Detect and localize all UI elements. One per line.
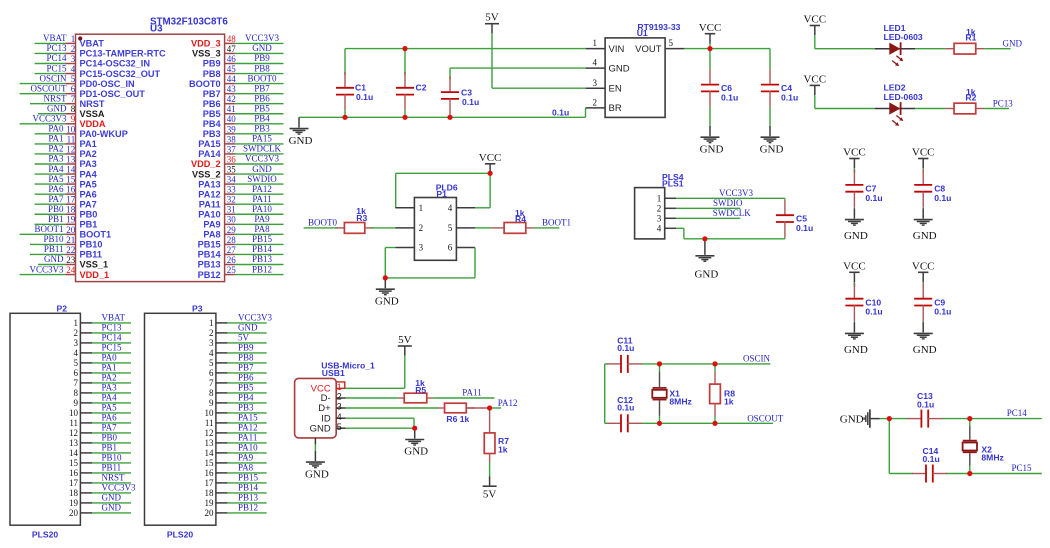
svg-text:PB9: PB9 bbox=[203, 59, 221, 69]
svg-text:PB6: PB6 bbox=[238, 373, 254, 383]
svg-text:38: 38 bbox=[227, 134, 237, 144]
svg-text:27: 27 bbox=[227, 245, 237, 255]
pin 13 (PA3) bbox=[65, 154, 97, 169]
svg-text:0.1u: 0.1u bbox=[917, 399, 934, 409]
svg-text:4: 4 bbox=[593, 58, 598, 68]
svg-text:GND: GND bbox=[252, 43, 272, 53]
svg-text:PLS1: PLS1 bbox=[662, 179, 684, 189]
svg-text:BOOT0: BOOT0 bbox=[308, 217, 337, 227]
wire bbox=[314, 438, 316, 451]
resistor R5 bbox=[398, 378, 432, 403]
svg-text:PD1-OSC_OUT: PD1-OSC_OUT bbox=[80, 89, 146, 99]
power VCC bbox=[843, 260, 866, 286]
svg-text:VCC: VCC bbox=[843, 147, 866, 159]
wire bbox=[889, 473, 1042, 475]
P3 pin 13 bbox=[205, 438, 228, 448]
pin 36 (VDD_2) bbox=[191, 154, 236, 169]
svg-text:PA9: PA9 bbox=[254, 214, 270, 224]
svg-text:42: 42 bbox=[227, 94, 236, 104]
svg-text:PB11: PB11 bbox=[80, 250, 102, 260]
svg-text:U3: U3 bbox=[150, 24, 163, 35]
pin 8 (VSSA) bbox=[65, 104, 105, 119]
wire bbox=[385, 248, 475, 278]
P2 pin 14 bbox=[69, 448, 92, 458]
node PB9 bbox=[235, 53, 284, 63]
P2 pin 10 bbox=[69, 408, 92, 418]
svg-text:0.1u: 0.1u bbox=[934, 307, 951, 317]
power VCC bbox=[843, 147, 866, 173]
svg-text:PB13: PB13 bbox=[238, 493, 259, 503]
wire bbox=[491, 33, 493, 88]
pin 25 (PB12) bbox=[198, 265, 237, 280]
power VCC bbox=[912, 260, 935, 286]
node PB14 bbox=[227, 483, 266, 493]
capacitor C13 bbox=[907, 391, 942, 427]
svg-text:19: 19 bbox=[66, 215, 76, 225]
wire bbox=[489, 462, 491, 476]
svg-text:12: 12 bbox=[205, 428, 214, 438]
svg-text:VCC: VCC bbox=[912, 260, 935, 272]
P2 pin 9 bbox=[74, 398, 93, 408]
ground bbox=[404, 428, 428, 458]
P2 pin 6 bbox=[74, 368, 93, 378]
USB1 pin 2 D- bbox=[336, 392, 346, 402]
node PB9 bbox=[227, 343, 266, 353]
node PB14 bbox=[235, 244, 284, 254]
svg-text:4: 4 bbox=[448, 203, 453, 213]
svg-text:11: 11 bbox=[205, 418, 214, 428]
node GND bbox=[227, 323, 266, 333]
node PB11 bbox=[92, 463, 131, 473]
P2 pin 18 bbox=[69, 488, 92, 498]
junction bbox=[712, 361, 717, 366]
svg-text:PB14: PB14 bbox=[252, 244, 273, 254]
svg-text:30: 30 bbox=[227, 215, 237, 225]
svg-text:VCC3V3: VCC3V3 bbox=[102, 483, 137, 493]
P1 pin 3 bbox=[396, 243, 424, 253]
svg-text:PB0: PB0 bbox=[80, 209, 98, 219]
node PB8 bbox=[227, 353, 266, 363]
svg-text:47: 47 bbox=[227, 44, 237, 54]
P2 pin 20 bbox=[69, 508, 92, 518]
ground bbox=[700, 126, 724, 155]
node PA1 bbox=[35, 134, 66, 144]
svg-text:PA14: PA14 bbox=[198, 149, 221, 159]
svg-text:PA7: PA7 bbox=[48, 194, 64, 204]
wire bbox=[492, 87, 586, 89]
svg-text:OSCOUT: OSCOUT bbox=[30, 83, 67, 93]
svg-text:PB12: PB12 bbox=[252, 264, 272, 274]
capacitor C5 bbox=[776, 198, 813, 239]
svg-text:PB7: PB7 bbox=[203, 89, 221, 99]
LED LED2 bbox=[875, 83, 923, 126]
svg-text:11: 11 bbox=[67, 134, 76, 144]
wire bbox=[345, 48, 586, 50]
svg-text:16: 16 bbox=[69, 468, 79, 478]
svg-text:VCC3V3: VCC3V3 bbox=[245, 154, 280, 164]
pin 9 (VDDA) bbox=[65, 114, 106, 129]
node PC13 bbox=[993, 98, 1014, 108]
svg-text:BR: BR bbox=[609, 103, 622, 114]
capacitor C8 bbox=[914, 169, 951, 208]
ground bbox=[305, 451, 329, 481]
node VCC3V3 bbox=[20, 264, 66, 274]
svg-text:33: 33 bbox=[227, 185, 237, 195]
node PA12 bbox=[490, 398, 518, 408]
wire bbox=[346, 427, 415, 429]
node PA8 bbox=[235, 224, 284, 234]
node PA6 bbox=[35, 184, 66, 194]
ground bbox=[375, 278, 399, 308]
node PA3 bbox=[35, 154, 66, 164]
wire bbox=[769, 49, 771, 60]
pin 47 (VSS_3) bbox=[192, 44, 236, 59]
pin 24 (VDD_1) bbox=[65, 265, 109, 280]
svg-text:PB12: PB12 bbox=[198, 270, 221, 280]
svg-text:5V: 5V bbox=[483, 489, 497, 501]
svg-text:2: 2 bbox=[593, 98, 598, 108]
node PC15 bbox=[35, 63, 67, 73]
USB1 pin 3 D+ bbox=[336, 402, 346, 412]
svg-text:8: 8 bbox=[71, 104, 76, 114]
svg-text:PC15: PC15 bbox=[102, 343, 123, 353]
U1 pin 1 VIN bbox=[586, 38, 605, 48]
svg-text:PA15: PA15 bbox=[198, 139, 220, 149]
svg-text:GND: GND bbox=[47, 103, 67, 113]
node VBAT bbox=[35, 33, 67, 43]
svg-text:PB1: PB1 bbox=[48, 214, 64, 224]
P2 pin 15 bbox=[69, 458, 92, 468]
svg-text:11: 11 bbox=[69, 418, 78, 428]
svg-text:PC14: PC14 bbox=[102, 333, 123, 343]
pin 14 (PA4) bbox=[65, 164, 97, 179]
svg-text:NRST: NRST bbox=[80, 99, 105, 109]
node PA8 bbox=[227, 463, 266, 473]
P3 pin 6 bbox=[209, 368, 227, 378]
ground bbox=[913, 322, 937, 356]
svg-text:PC15: PC15 bbox=[1012, 463, 1033, 473]
P3 pin 7 bbox=[209, 378, 227, 388]
svg-text:PA15: PA15 bbox=[238, 413, 258, 423]
svg-text:10: 10 bbox=[205, 408, 215, 418]
svg-text:VCC3V3: VCC3V3 bbox=[238, 313, 273, 323]
P2 pin 2 bbox=[74, 328, 93, 338]
node SWDCLK bbox=[676, 208, 751, 218]
capacitor C6 bbox=[701, 49, 738, 126]
svg-text:15: 15 bbox=[205, 458, 215, 468]
svg-text:35: 35 bbox=[227, 164, 237, 174]
svg-text:0.1u: 0.1u bbox=[923, 454, 940, 464]
ground bbox=[840, 409, 880, 427]
pin 48 (VDD_3) bbox=[191, 34, 236, 49]
USB1 pin 5 GND bbox=[336, 422, 346, 432]
svg-text:PB10: PB10 bbox=[102, 453, 123, 463]
wire bbox=[346, 407, 438, 409]
svg-text:13: 13 bbox=[205, 438, 215, 448]
P3 pin 19 bbox=[205, 498, 228, 508]
node NRST bbox=[92, 473, 131, 483]
P2 pin 4 bbox=[74, 348, 93, 358]
wire bbox=[345, 387, 405, 389]
junction bbox=[707, 46, 712, 51]
node GND bbox=[1003, 39, 1023, 49]
svg-text:PA8: PA8 bbox=[254, 224, 270, 234]
P3 pin 8 bbox=[209, 388, 227, 398]
svg-text:PC14-OSC32_IN: PC14-OSC32_IN bbox=[80, 59, 151, 69]
svg-text:PA11: PA11 bbox=[238, 433, 257, 443]
P3 pin 11 bbox=[205, 418, 228, 428]
svg-text:VBAT: VBAT bbox=[102, 313, 126, 323]
svg-text:PC13: PC13 bbox=[102, 323, 123, 333]
svg-text:13: 13 bbox=[69, 438, 79, 448]
svg-text:43: 43 bbox=[227, 84, 237, 94]
svg-text:GND: GND bbox=[375, 295, 399, 307]
svg-text:6: 6 bbox=[74, 368, 79, 378]
svg-text:18: 18 bbox=[205, 488, 215, 498]
svg-text:7: 7 bbox=[209, 378, 214, 388]
P1 pin 2 bbox=[396, 223, 424, 233]
svg-text:PA5: PA5 bbox=[48, 174, 64, 184]
U1 pin 4 GND bbox=[586, 58, 605, 68]
svg-text:4: 4 bbox=[657, 224, 662, 234]
node OSCIN bbox=[20, 73, 67, 83]
pin 38 (PA15) bbox=[198, 134, 236, 149]
junction bbox=[383, 275, 388, 280]
pin 4 (PC15-OSC32_OUT) bbox=[65, 64, 160, 79]
svg-text:PB4: PB4 bbox=[203, 119, 222, 129]
P3 pin 17 bbox=[205, 478, 228, 488]
svg-text:PA6: PA6 bbox=[102, 413, 118, 423]
svg-text:5V: 5V bbox=[485, 12, 499, 24]
svg-text:6: 6 bbox=[448, 243, 453, 253]
pin 2 (PC13-TAMPER-RTC) bbox=[65, 44, 166, 59]
pin 15 (PA5) bbox=[65, 175, 97, 190]
svg-text:LED-0603: LED-0603 bbox=[884, 92, 923, 102]
svg-text:44: 44 bbox=[227, 74, 237, 84]
node PB3 bbox=[235, 124, 284, 134]
svg-text:PA6: PA6 bbox=[80, 189, 97, 199]
svg-text:BOOT0: BOOT0 bbox=[189, 79, 221, 89]
wire bbox=[404, 49, 406, 75]
node PA9 bbox=[235, 214, 284, 224]
svg-text:VDDA: VDDA bbox=[80, 119, 106, 129]
node OSCOUT bbox=[747, 413, 784, 423]
pin 30 (PA9) bbox=[203, 215, 236, 230]
svg-text:R5: R5 bbox=[415, 385, 426, 395]
svg-text:0.1u: 0.1u bbox=[356, 92, 373, 102]
svg-text:PB11: PB11 bbox=[44, 244, 64, 254]
svg-text:GND: GND bbox=[305, 468, 329, 480]
junction bbox=[402, 115, 407, 120]
svg-text:2: 2 bbox=[71, 44, 76, 54]
resistor R3 bbox=[336, 206, 374, 233]
power VCC bbox=[479, 152, 502, 174]
node VCC3V3 bbox=[235, 154, 284, 164]
pin 3 (PC14-OSC32_IN) bbox=[65, 54, 150, 69]
wire bbox=[450, 67, 586, 69]
svg-text:3: 3 bbox=[71, 54, 76, 64]
P3 pin 14 bbox=[205, 448, 228, 458]
svg-text:C2: C2 bbox=[416, 83, 427, 93]
power 5V bbox=[483, 477, 497, 501]
svg-text:13: 13 bbox=[66, 154, 76, 164]
svg-text:14: 14 bbox=[69, 448, 79, 458]
header P1 PLD6 body bbox=[414, 182, 457, 260]
power 5V bbox=[398, 334, 412, 356]
node PC14 bbox=[92, 333, 131, 343]
svg-text:U1: U1 bbox=[637, 28, 648, 38]
node PA4 bbox=[92, 393, 131, 403]
svg-text:20: 20 bbox=[205, 508, 215, 518]
svg-text:3: 3 bbox=[419, 243, 424, 253]
svg-text:0.1u: 0.1u bbox=[781, 93, 798, 103]
svg-text:PB6: PB6 bbox=[203, 99, 221, 109]
wire bbox=[915, 48, 945, 50]
node PB1 bbox=[92, 443, 131, 453]
svg-text:6: 6 bbox=[71, 84, 76, 94]
node PC15 bbox=[1012, 463, 1033, 473]
pin 22 (PB11) bbox=[65, 245, 102, 260]
node PB0 bbox=[92, 433, 131, 443]
P1 pin 1 bbox=[396, 203, 424, 213]
svg-text:4: 4 bbox=[337, 412, 342, 422]
svg-text:PB13: PB13 bbox=[198, 260, 221, 270]
PLS1 pin 2 bbox=[657, 204, 677, 214]
svg-text:PB15: PB15 bbox=[252, 234, 273, 244]
P2 pin 3 bbox=[74, 338, 93, 348]
svg-text:0.1u: 0.1u bbox=[796, 223, 813, 233]
node PA9 bbox=[227, 453, 266, 463]
pin 23 (VSS_1) bbox=[65, 255, 108, 270]
svg-text:PC15-OSC32_OUT: PC15-OSC32_OUT bbox=[80, 69, 161, 79]
svg-text:0.1u: 0.1u bbox=[462, 97, 479, 107]
P2 pin 13 bbox=[69, 438, 92, 448]
resistor R4 bbox=[491, 208, 534, 233]
node BOOT0 bbox=[304, 217, 338, 228]
wire bbox=[604, 364, 606, 423]
pin 31 (PA10) bbox=[198, 205, 236, 220]
svg-text:5V: 5V bbox=[398, 334, 412, 346]
svg-text:GND: GND bbox=[102, 493, 122, 503]
junction bbox=[447, 115, 452, 120]
node PA11 bbox=[227, 433, 266, 443]
svg-text:SWDCLK: SWDCLK bbox=[713, 208, 752, 218]
P2 pin 8 bbox=[74, 388, 93, 398]
pin 41 (PB5) bbox=[203, 104, 236, 119]
svg-text:3: 3 bbox=[209, 338, 214, 348]
svg-text:37: 37 bbox=[227, 144, 237, 154]
node PC14 bbox=[35, 53, 67, 63]
pin 6 (PD1-OSC_OUT) bbox=[65, 84, 145, 99]
wire bbox=[396, 173, 490, 208]
node PB0 bbox=[35, 204, 66, 214]
junction bbox=[967, 471, 972, 476]
svg-text:R1: R1 bbox=[965, 32, 976, 42]
node VCC3V3 bbox=[227, 313, 272, 323]
P1 pin 5 bbox=[448, 223, 475, 233]
P3 pin 20 bbox=[205, 508, 228, 518]
svg-text:18: 18 bbox=[69, 488, 79, 498]
svg-text:22: 22 bbox=[66, 245, 75, 255]
svg-text:2: 2 bbox=[74, 328, 79, 338]
crystal X1 bbox=[652, 364, 692, 423]
U1 pin 3 EN bbox=[586, 78, 605, 88]
svg-text:18: 18 bbox=[66, 205, 76, 215]
node PB10 bbox=[30, 234, 65, 244]
PLS1 pin 1 bbox=[657, 194, 677, 204]
svg-text:SWDCLK: SWDCLK bbox=[243, 144, 282, 154]
svg-text:PA13: PA13 bbox=[198, 179, 220, 189]
svg-text:GND: GND bbox=[289, 135, 313, 147]
node PB5 bbox=[227, 383, 266, 393]
svg-text:PA6: PA6 bbox=[48, 184, 64, 194]
pin 11 (PA1) bbox=[65, 134, 97, 149]
svg-text:4: 4 bbox=[209, 348, 214, 358]
resistor R8 bbox=[710, 364, 736, 423]
svg-text:0.1u: 0.1u bbox=[934, 193, 951, 203]
node PA6 bbox=[92, 413, 131, 423]
pin 34 (PA13) bbox=[198, 175, 236, 190]
svg-text:1: 1 bbox=[657, 194, 662, 204]
svg-text:39: 39 bbox=[227, 124, 237, 134]
wire bbox=[889, 418, 1042, 420]
pin 19 (PB1) bbox=[65, 215, 97, 230]
svg-text:VCC3V3: VCC3V3 bbox=[719, 188, 754, 198]
node NRST bbox=[30, 93, 67, 103]
P1 pin 4 bbox=[448, 203, 475, 213]
pin 16 (PA6) bbox=[65, 185, 97, 200]
svg-text:VDD_2: VDD_2 bbox=[191, 159, 221, 169]
node PC13 bbox=[35, 43, 67, 53]
node PB15 bbox=[235, 234, 284, 244]
svg-text:BOOT1: BOOT1 bbox=[35, 224, 64, 234]
svg-text:17: 17 bbox=[205, 478, 215, 488]
svg-text:PA10: PA10 bbox=[198, 209, 220, 219]
P2 pin 5 bbox=[74, 358, 93, 368]
svg-text:VCC: VCC bbox=[843, 260, 866, 272]
pin 32 (PA11) bbox=[199, 195, 236, 210]
P3 pin 1 bbox=[209, 318, 227, 328]
svg-text:GND: GND bbox=[700, 143, 724, 155]
svg-text:PB7: PB7 bbox=[254, 83, 270, 93]
node PB5 bbox=[235, 103, 284, 113]
resistor R7 bbox=[484, 408, 509, 462]
svg-text:PC13: PC13 bbox=[993, 98, 1014, 108]
svg-text:7: 7 bbox=[71, 94, 76, 104]
capacitor C2 bbox=[396, 72, 427, 117]
svg-text:PC13: PC13 bbox=[46, 43, 67, 53]
pin 45 (PB8) bbox=[203, 64, 237, 79]
svg-text:R3: R3 bbox=[356, 213, 367, 223]
svg-text:1: 1 bbox=[209, 318, 214, 328]
svg-text:PA5: PA5 bbox=[80, 179, 97, 189]
svg-text:PA10: PA10 bbox=[238, 443, 258, 453]
capacitor C7 bbox=[845, 169, 882, 208]
svg-text:PA4: PA4 bbox=[102, 393, 118, 403]
wire bbox=[404, 356, 406, 389]
node PA4 bbox=[35, 164, 66, 174]
svg-text:12: 12 bbox=[66, 144, 75, 154]
svg-text:2: 2 bbox=[419, 223, 424, 233]
node PA15 bbox=[227, 413, 266, 423]
svg-text:12: 12 bbox=[69, 428, 78, 438]
wire bbox=[880, 418, 890, 420]
node VCC3V3 bbox=[676, 188, 785, 198]
svg-text:17: 17 bbox=[66, 195, 76, 205]
svg-text:PB14: PB14 bbox=[238, 483, 259, 493]
svg-text:1k: 1k bbox=[724, 396, 734, 406]
pin 26 (PB13) bbox=[198, 255, 237, 270]
